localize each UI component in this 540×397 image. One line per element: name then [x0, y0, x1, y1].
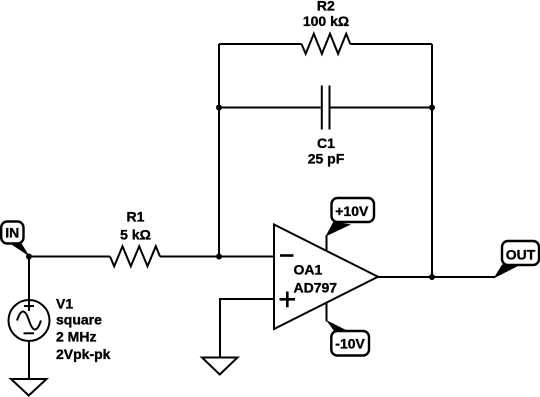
ground (V1) — [11, 379, 47, 396]
wire: capacitor branch right segment — [331, 107, 433, 109]
svg-text:+10V: +10V — [335, 203, 369, 219]
op-amp OA1 — [274, 225, 378, 330]
svg-text:OA1: OA1 — [294, 261, 323, 277]
wire: V1 to ground — [28, 341, 30, 379]
svg-text:5 kΩ: 5 kΩ — [120, 227, 151, 243]
wire: R1 to op-amp inverting input — [160, 256, 274, 258]
svg-text:2 MHz: 2 MHz — [56, 329, 96, 345]
power net -10V — [326, 302, 369, 356]
node: junction dot inverting input — [216, 254, 222, 260]
svg-text:V1: V1 — [56, 296, 73, 312]
net label IN — [1, 222, 29, 257]
ground (non-inverting input) — [202, 358, 238, 375]
svg-text:OUT: OUT — [506, 247, 536, 263]
svg-text:-10V: -10V — [335, 336, 365, 352]
wire: input node to R1 — [29, 256, 110, 258]
svg-text:R2: R2 — [317, 0, 335, 14]
wire: right feedback vertical down to output — [431, 44, 433, 277]
svg-text:C1: C1 — [317, 135, 335, 151]
resistor R2 — [302, 34, 351, 54]
wire: top rail left segment to R2 — [219, 43, 302, 45]
wire: left feedback vertical from inverting node up to top rail — [218, 44, 220, 257]
wire: capacitor branch left segment — [219, 107, 321, 109]
capacitor C1 — [322, 86, 330, 130]
node: junction dot right cap branch — [429, 105, 435, 111]
wire: op-amp output — [378, 276, 495, 278]
net label OUT — [494, 241, 540, 279]
wire: input node down to V1 — [28, 257, 30, 301]
power net +10V — [326, 198, 375, 251]
node: junction dot input source — [26, 254, 32, 260]
wire: op-amp non-inverting input to ground — [220, 299, 274, 357]
svg-text:100 kΩ: 100 kΩ — [303, 13, 349, 29]
svg-text:R1: R1 — [127, 209, 145, 225]
svg-text:IN: IN — [5, 225, 19, 241]
resistor R1 — [110, 246, 160, 266]
label V1 value — [56, 296, 111, 363]
svg-text:25 pF: 25 pF — [308, 151, 345, 167]
svg-text:AD797: AD797 — [294, 280, 338, 296]
svg-text:square: square — [56, 312, 102, 328]
node: junction dot left cap branch — [216, 105, 222, 111]
wire: top rail right segment from R2 to right feedback vertical — [350, 43, 432, 45]
node: junction dot output — [429, 274, 435, 280]
voltage source V1 — [9, 300, 50, 341]
svg-text:2Vpk-pk: 2Vpk-pk — [56, 346, 111, 362]
